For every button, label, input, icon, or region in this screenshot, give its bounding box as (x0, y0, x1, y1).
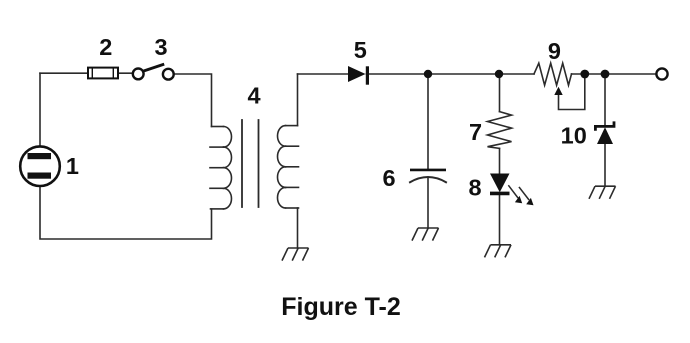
svg-text:4: 4 (247, 83, 260, 109)
svg-text:3: 3 (154, 34, 167, 60)
svg-text:9: 9 (548, 38, 561, 64)
svg-text:Figure T-2: Figure T-2 (281, 293, 400, 321)
svg-text:10: 10 (561, 122, 587, 148)
svg-text:7: 7 (469, 119, 482, 145)
svg-text:8: 8 (468, 175, 481, 201)
svg-text:6: 6 (382, 165, 395, 191)
svg-text:1: 1 (66, 153, 79, 179)
svg-text:2: 2 (99, 34, 112, 60)
svg-text:5: 5 (354, 37, 367, 63)
